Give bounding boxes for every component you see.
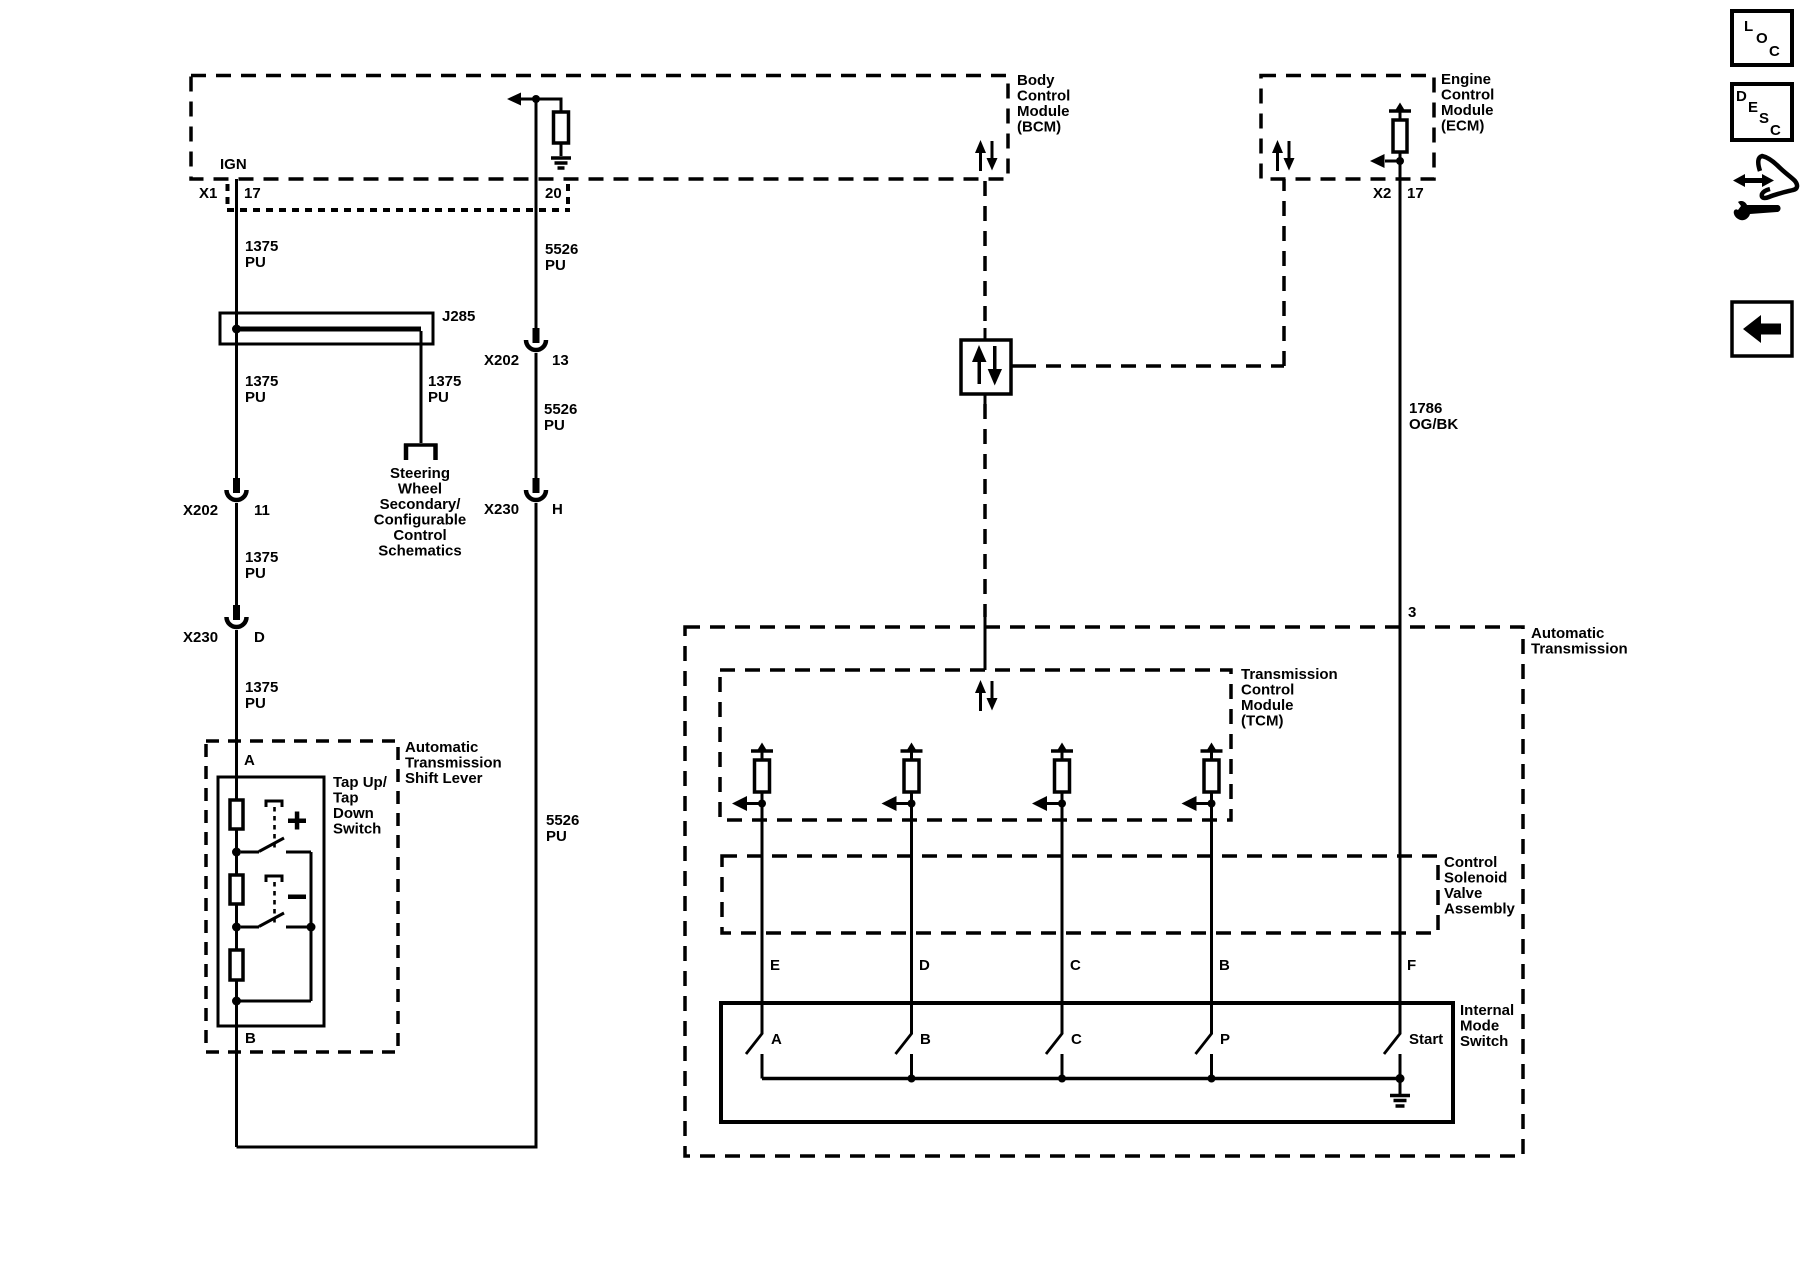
label 1375 PU (right branch) — [428, 373, 461, 406]
svg-text:17: 17 — [244, 185, 261, 202]
junction C on bus — [1058, 1075, 1066, 1083]
svg-text:X230: X230 — [183, 629, 218, 646]
switch B (IMS) — [896, 1033, 913, 1079]
svg-text:(TCM): (TCM) — [1241, 713, 1283, 730]
svg-text:(ECM): (ECM) — [1441, 118, 1484, 135]
svg-text:PU: PU — [245, 695, 266, 712]
svg-text:Module: Module — [1241, 697, 1294, 714]
icon DESC box — [1732, 84, 1792, 140]
wire 1786 OG/BK ECM X2-17 down to transmission — [1399, 161, 1402, 1034]
off-page connector fork (steering wheel) — [404, 444, 438, 461]
svg-text:Transmission: Transmission — [1241, 666, 1338, 683]
resistor in ECM — [1393, 120, 1407, 152]
right bus wire — [310, 852, 313, 1001]
resistor R3 — [230, 950, 243, 980]
svg-text:F: F — [1407, 957, 1416, 974]
svg-text:Module: Module — [1017, 103, 1070, 120]
svg-text:X230: X230 — [484, 501, 519, 518]
junction at BCM pin 20 wire — [532, 95, 540, 103]
serial data arrows in BCM — [975, 140, 998, 171]
svg-text:(BCM): (BCM) — [1017, 119, 1061, 136]
connector row X1 dotted — [227, 184, 570, 210]
label Body Control Module (BCM) — [1017, 72, 1070, 136]
wire 5526 PU BCM pin 20 to X202 — [535, 99, 538, 328]
svg-text:IGN: IGN — [220, 156, 247, 173]
svg-text:Configurable: Configurable — [374, 512, 467, 529]
switch P (IMS) — [1196, 1033, 1213, 1079]
serial data bus gateway to ECM (dashed) — [1011, 179, 1284, 366]
svg-text:Shift Lever: Shift Lever — [405, 770, 483, 787]
wire R3 to node 3 — [235, 980, 238, 1001]
TCM driver D: junction — [908, 800, 916, 808]
resistor R2 (tap down) — [230, 875, 243, 904]
svg-text:Body: Body — [1017, 72, 1055, 89]
svg-text:Switch: Switch — [1460, 1033, 1508, 1050]
node 1 — [232, 848, 241, 857]
wire 1375 PU from BCM X1-17 to J285 — [235, 179, 238, 329]
svg-text:X202: X202 — [183, 502, 218, 519]
TCM driver D: signal arrow — [882, 796, 912, 811]
wire resistor to junction — [1399, 152, 1402, 161]
svg-text:Automatic: Automatic — [405, 739, 478, 756]
serial data arrows in ECM — [1272, 140, 1295, 171]
wire 1375 PU X202 to X230 — [235, 503, 238, 605]
TCM driver B: 5V bar — [1201, 743, 1223, 761]
TCM driver D: resistor — [904, 760, 919, 792]
svg-text:13: 13 — [552, 352, 569, 369]
ground (BCM internal) — [551, 158, 571, 168]
splice pack J285 — [220, 313, 433, 344]
TCM driver C: signal arrow — [1032, 796, 1062, 811]
svg-text:5526: 5526 — [545, 241, 578, 258]
svg-text:X2: X2 — [1373, 185, 1391, 202]
svg-text:PU: PU — [546, 828, 567, 845]
TCM driver C: resistor — [1055, 760, 1070, 792]
svg-text:Internal: Internal — [1460, 1002, 1514, 1019]
label Engine Control Module (ECM) — [1441, 71, 1494, 135]
junction B on bus — [908, 1075, 916, 1083]
node on right bus (tap down) — [307, 923, 316, 932]
junction P on bus — [1208, 1075, 1216, 1083]
serial data bus gateway to TCM (dashed) — [983, 404, 987, 617]
svg-text:C: C — [1770, 122, 1781, 139]
svg-text:Steering: Steering — [390, 465, 450, 482]
node 2 — [232, 923, 241, 932]
wire solenoid E — [761, 792, 764, 1034]
svg-text:Control: Control — [393, 527, 446, 544]
svg-text:1375: 1375 — [428, 373, 461, 390]
svg-text:Control: Control — [1241, 682, 1294, 699]
label Tap Up/Tap Down Switch — [333, 774, 388, 838]
TCM driver E: junction — [758, 800, 766, 808]
label 1375 PU — [245, 549, 278, 582]
svg-text:D: D — [919, 957, 930, 974]
svg-text:Schematics: Schematics — [378, 543, 461, 560]
svg-text:D: D — [1736, 88, 1747, 105]
label Transmission Control Module (TCM) — [1241, 666, 1338, 730]
serial data bus BCM to gateway box (dashed) — [983, 181, 987, 328]
wire pin B down to bottom run — [235, 1001, 238, 1147]
wire J285 right branch to steering wheel schematics — [420, 331, 423, 443]
svg-text:1375: 1375 — [245, 679, 278, 696]
svg-text:1375: 1375 — [245, 549, 278, 566]
component box Control Solenoid Valve Assembly (dashed) — [722, 856, 1438, 933]
svg-text:Wheel: Wheel — [398, 481, 442, 498]
junction at ECM signal — [1396, 157, 1404, 165]
svg-text:OG/BK: OG/BK — [1409, 416, 1458, 433]
svg-text:S: S — [1759, 110, 1769, 127]
inline connector X230 pin H — [526, 478, 546, 500]
svg-text:1375: 1375 — [245, 238, 278, 255]
svg-text:PU: PU — [245, 565, 266, 582]
switch Start (IMS) — [1384, 1033, 1401, 1079]
switch A (IMS) — [746, 1033, 763, 1079]
switch assembly box Tap Up/Tap Down — [218, 777, 324, 1026]
svg-text:5526: 5526 — [544, 401, 577, 418]
label 5526 PU — [545, 241, 578, 274]
serial data gateway box — [961, 340, 1011, 394]
svg-text:Module: Module — [1441, 102, 1494, 119]
icon DESC letters — [1736, 88, 1781, 139]
wire solenoid B — [1210, 792, 1213, 1034]
svg-text:E: E — [770, 957, 780, 974]
node 3 — [232, 997, 241, 1006]
label Automatic Transmission Shift Lever — [405, 739, 502, 787]
svg-text:P: P — [1220, 1031, 1230, 1048]
actuator dashed link (tap up) — [266, 801, 282, 849]
label Control Solenoid Valve Assembly — [1444, 854, 1516, 918]
svg-text:B: B — [920, 1031, 931, 1048]
plus symbol — [288, 812, 306, 830]
wire bus to ground — [1399, 1079, 1402, 1095]
component box Internal Mode Switch — [721, 1003, 1453, 1122]
wire R1 to node 1 — [235, 829, 238, 852]
svg-text:Tap Up/: Tap Up/ — [333, 774, 388, 791]
svg-text:A: A — [771, 1031, 782, 1048]
svg-text:B: B — [1219, 957, 1230, 974]
TCM driver E: signal arrow — [732, 796, 762, 811]
label Automatic Transmission — [1531, 625, 1628, 658]
wire 5526 PU X202 to X230 — [535, 353, 538, 478]
svg-text:Down: Down — [333, 805, 374, 822]
svg-text:Solenoid: Solenoid — [1444, 870, 1507, 887]
svg-text:PU: PU — [245, 389, 266, 406]
label Steering Wheel Secondary/Configurable Control Schematics — [374, 465, 467, 560]
svg-text:Valve: Valve — [1444, 885, 1482, 902]
minus symbol — [288, 895, 306, 900]
svg-text:PU: PU — [545, 257, 566, 274]
component box Automatic Transmission (dashed) — [685, 627, 1523, 1156]
5V reference bar in ECM — [1389, 103, 1411, 121]
svg-text:Switch: Switch — [333, 821, 381, 838]
component box Automatic Transmission Shift Lever (dashed) — [206, 741, 398, 1052]
svg-text:C: C — [1070, 957, 1081, 974]
serial data arrows in TCM — [975, 680, 998, 711]
svg-text:H: H — [552, 501, 563, 518]
label 5526 PU — [546, 812, 579, 845]
IMS common bus wire — [762, 1077, 1400, 1081]
TCM driver D: 5V bar — [901, 743, 923, 761]
wire solenoid D — [910, 792, 913, 1034]
inline connector X202 pin 11 — [227, 478, 247, 500]
resistor in BCM — [554, 112, 569, 143]
svg-text:PU: PU — [245, 254, 266, 271]
TCM driver B: resistor — [1204, 760, 1219, 792]
svg-text:Control: Control — [1441, 87, 1494, 104]
svg-text:Control: Control — [1017, 88, 1070, 105]
TCM driver B: junction — [1208, 800, 1216, 808]
svg-text:C: C — [1071, 1031, 1082, 1048]
wire 5526 PU arrow into BCM — [507, 93, 561, 113]
label 1786 OG/BK — [1409, 400, 1458, 433]
module box TCM (dashed) — [720, 670, 1231, 820]
svg-text:5526: 5526 — [546, 812, 579, 829]
svg-text:Secondary/: Secondary/ — [380, 496, 462, 513]
actuator dashed link (tap down) — [266, 876, 282, 924]
wire node2 to R3 — [235, 927, 238, 950]
switch tap down — [241, 913, 311, 927]
svg-text:Engine: Engine — [1441, 71, 1491, 88]
svg-text:C: C — [1769, 43, 1780, 60]
TCM driver C: junction — [1058, 800, 1066, 808]
wire solenoid C — [1061, 792, 1064, 1034]
wire resistor to ground — [560, 143, 563, 156]
junction on J285 bus — [232, 325, 241, 334]
label 5526 PU — [544, 401, 577, 434]
svg-text:X1: X1 — [199, 185, 217, 202]
junction Start on bus — [1396, 1074, 1405, 1083]
label Internal Mode Switch — [1460, 1002, 1514, 1050]
resistor R1 (tap up) — [230, 800, 243, 829]
module box ECM — [1261, 76, 1434, 180]
svg-text:Mode: Mode — [1460, 1018, 1499, 1035]
svg-text:1786: 1786 — [1409, 400, 1442, 417]
wire node1 to R2 — [235, 852, 238, 875]
wire 5526 PU X230 down to shift lever pin B — [237, 503, 537, 1147]
svg-text:E: E — [1748, 99, 1758, 116]
svg-text:17: 17 — [1407, 185, 1424, 202]
svg-text:3: 3 — [1408, 604, 1416, 621]
svg-text:20: 20 — [545, 185, 562, 202]
svg-text:1375: 1375 — [245, 373, 278, 390]
svg-text:PU: PU — [544, 417, 565, 434]
icon back arrow — [1743, 315, 1781, 343]
module box BCM — [191, 76, 1008, 180]
icon LOC letters — [1744, 18, 1780, 60]
TCM driver E: resistor — [755, 760, 770, 792]
svg-text:Tap: Tap — [333, 790, 359, 807]
svg-text:11: 11 — [254, 502, 270, 519]
svg-text:L: L — [1744, 18, 1753, 35]
switch C (IMS) — [1046, 1033, 1063, 1079]
svg-text:Transmission: Transmission — [1531, 641, 1628, 658]
svg-text:J285: J285 — [442, 308, 475, 325]
TCM driver B: signal arrow — [1182, 796, 1212, 811]
svg-text:Start: Start — [1409, 1031, 1443, 1048]
svg-text:PU: PU — [428, 389, 449, 406]
icon back arrow box — [1732, 302, 1792, 356]
wire node3 to right bus — [237, 1000, 312, 1003]
svg-text:D: D — [254, 629, 265, 646]
arrows in gateway box — [972, 345, 1002, 386]
wire R2 to node 2 — [235, 904, 238, 927]
switch tap up — [241, 838, 311, 852]
TCM driver C: 5V bar — [1051, 743, 1073, 761]
svg-text:X202: X202 — [484, 352, 519, 369]
wire 1375 PU J285 to X202 — [235, 329, 238, 478]
svg-text:Control: Control — [1444, 854, 1497, 871]
svg-text:Automatic: Automatic — [1531, 625, 1604, 642]
icon LOC box — [1732, 11, 1792, 65]
inline connector X202 pin 13 — [526, 328, 546, 350]
label 1375 PU — [245, 373, 278, 406]
svg-text:A: A — [244, 752, 255, 769]
wire 1375 PU X230 to shift lever pin A — [235, 630, 238, 800]
inline connector X230 pin D — [227, 605, 247, 627]
svg-text:B: B — [245, 1030, 256, 1047]
signal arrow in ECM — [1370, 154, 1400, 168]
label 1375 PU — [245, 679, 278, 712]
TCM driver E: 5V bar — [751, 743, 773, 761]
label 1375 PU — [245, 238, 278, 271]
svg-text:O: O — [1756, 30, 1768, 47]
svg-text:Transmission: Transmission — [405, 755, 502, 772]
icon schematic navigation (double arrow, outline, wrench) — [1733, 156, 1797, 220]
svg-text:Assembly: Assembly — [1444, 901, 1516, 918]
ground (IMS) — [1390, 1096, 1410, 1107]
